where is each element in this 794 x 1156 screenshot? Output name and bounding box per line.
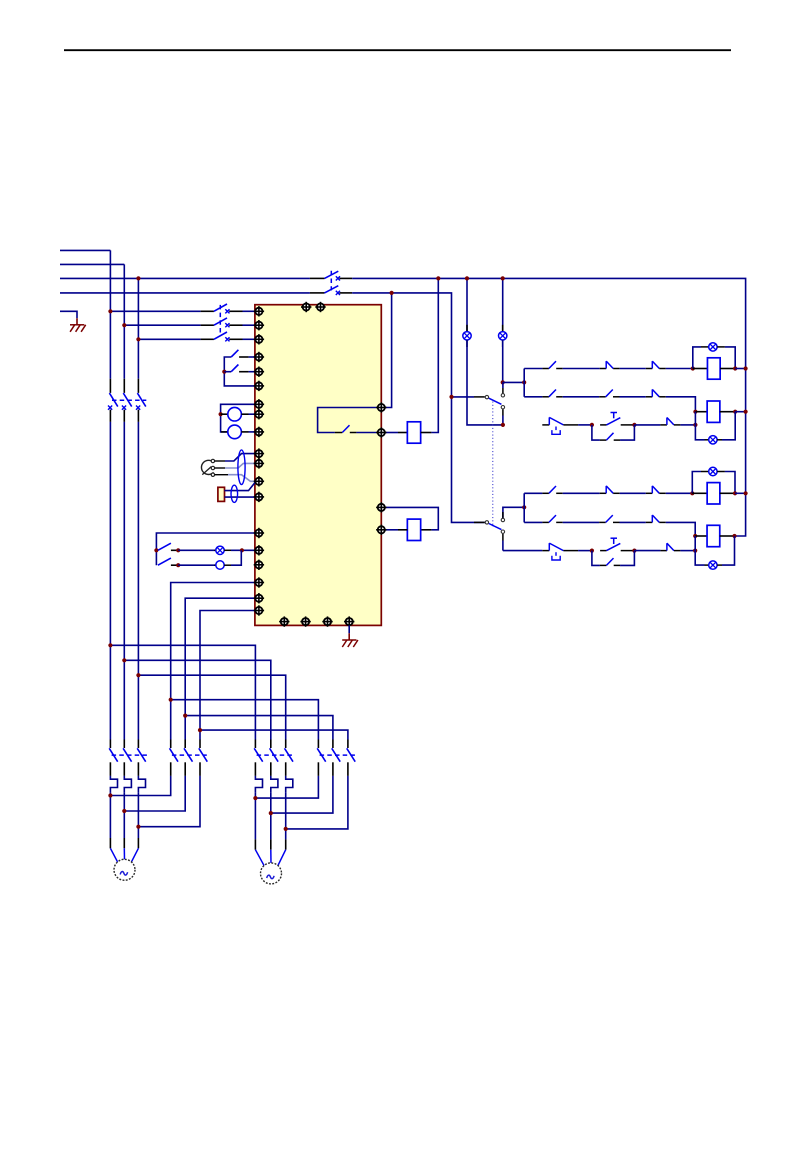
contactor KM1 link <box>112 754 148 756</box>
wire branch phase 2 to KM3 <box>124 660 270 739</box>
wire branch KM2 3 to KM4 <box>200 730 348 739</box>
wire RP pin1 to row10 <box>225 454 255 461</box>
switch QS1 pole 1 <box>108 379 118 422</box>
overload FR1 heater 1 <box>110 776 117 792</box>
selector SA2 blade <box>489 398 502 404</box>
wire KM4 out 2 <box>271 776 333 813</box>
motor M2 lead black 2 <box>270 839 272 849</box>
relay KA2 lead in <box>385 529 398 531</box>
contact rung5-3 <box>646 515 666 522</box>
lamp HL1c lead out <box>717 346 725 348</box>
relay KA2 lead out black <box>421 529 432 531</box>
switch QS1 pole 3 <box>136 379 146 422</box>
wire rung6 mid <box>578 550 592 552</box>
junction combo2/rung3 <box>693 423 697 427</box>
wire RT upper to row12 <box>225 482 256 491</box>
potentiometer RP pin1 <box>211 459 214 462</box>
relay KA2 lead in black <box>398 529 407 531</box>
pushbutton SB1 blade <box>231 350 238 357</box>
lamp HL1 lead top <box>466 325 468 332</box>
lamp HL2c lead in <box>705 439 709 441</box>
combo2 left leg <box>695 412 704 440</box>
lamp HL1c branch right <box>725 347 735 369</box>
junction KM2 out 3 <box>136 825 140 829</box>
contactor KM1 pole 3 <box>137 740 146 776</box>
junction rail/combo1 <box>744 366 748 370</box>
PLC terminal left 14 <box>254 528 264 538</box>
wire rows7-9 bracket <box>221 404 255 432</box>
lamp HL1c <box>709 343 717 351</box>
PLC terminal left 13 <box>254 492 264 502</box>
foot switch SF2 <box>542 543 578 560</box>
resistor RT body <box>218 487 225 501</box>
selector SA3 blade <box>489 524 502 530</box>
motor M1 lead diag 1 <box>110 848 117 862</box>
wire KM2 out 3 <box>138 776 200 827</box>
wire row17 to KM2 pole1 <box>171 583 255 740</box>
contact rung4-1 <box>542 486 562 493</box>
wire rung1 lead <box>524 368 542 370</box>
relay KA5 lead out <box>720 492 735 494</box>
motor M1 lead diag 2 <box>123 848 125 859</box>
wire throw B up black <box>502 512 504 518</box>
combo2 right leg <box>722 412 735 440</box>
contactor KM4 pole 1 <box>317 740 326 776</box>
wire rows4-6 bracket <box>224 357 255 386</box>
wire FR1 to motor lead 1 <box>109 792 111 838</box>
PLC terminal left 8 <box>254 409 264 419</box>
contactor KM2 link <box>172 754 207 756</box>
junction rung3 par left <box>590 423 594 427</box>
seal contact rung6 <box>600 558 620 565</box>
relay KA3 lead out <box>720 368 735 370</box>
pushbutton SB1 lead <box>239 356 249 358</box>
relay KA3 lead in <box>693 368 708 370</box>
junction branch 2 <box>122 658 126 662</box>
switch QF lead-out L4 <box>339 292 352 294</box>
relay KA1 lead in black <box>398 432 407 434</box>
potentiometer RP wiper <box>202 467 211 475</box>
junction rail/combo2 <box>744 410 748 414</box>
motor M1 lead black 1 <box>109 838 111 848</box>
junction KM4 out 2 <box>269 811 273 815</box>
lamp HL1c lead in <box>701 346 709 348</box>
sensor SQ1 <box>228 407 242 421</box>
relay KA6 <box>707 525 720 546</box>
PLC internal contact 1 <box>318 408 382 433</box>
sensor SQ1 lead left <box>221 413 228 415</box>
wire RP pin2 to row11 <box>225 463 255 468</box>
seal branch rung3 <box>592 425 600 440</box>
junction combo2 left <box>693 410 697 414</box>
wire RP pin3 black <box>215 474 228 476</box>
switch SA1b lead <box>171 564 178 566</box>
junction lamp branch <box>154 548 158 552</box>
junction combo1 right <box>733 366 737 370</box>
overload FR2 heater 1 <box>255 776 262 792</box>
selector SA3 throw down <box>501 530 504 533</box>
wire FR2 to motor lead 3 <box>285 792 287 839</box>
wire RP pin1 black <box>215 460 225 462</box>
wire HL0 to row15 <box>231 549 255 551</box>
overload FR1 heater 2 <box>124 776 131 792</box>
overload FR2 heater 3 <box>286 776 293 792</box>
wire rung6 lead <box>503 550 542 552</box>
pushbutton SB3 <box>600 413 634 425</box>
wire phase C drop <box>137 278 139 378</box>
switch SA1a blade <box>158 543 171 550</box>
junction L3/lamp2 <box>501 276 505 280</box>
wire rung5 mid2 <box>620 521 646 523</box>
cable shield oval 2 <box>231 485 238 502</box>
wire rung4 out <box>666 492 693 494</box>
motor M2 lead black 3 <box>285 839 287 849</box>
wire L4 to selector feed <box>352 293 485 523</box>
wire L3 phase to switch <box>60 277 310 279</box>
wire rung1 mid1 <box>563 368 600 370</box>
contactor KM4 link <box>320 754 356 756</box>
contactor KM4 pole 3 <box>347 740 356 776</box>
junction phase row 3 <box>136 337 140 341</box>
wire bracket A <box>523 369 525 397</box>
switch S2 link <box>219 305 221 334</box>
contact rung5-1 <box>542 515 562 522</box>
wire lamp drop 1 <box>466 278 468 331</box>
junction row5 bracket <box>222 370 226 374</box>
contact rung6-3 <box>660 543 680 550</box>
switch QF link <box>330 271 332 291</box>
wire lamp1 to rung3 <box>467 340 503 425</box>
lamp HL0 <box>216 546 224 554</box>
wire L3 to right rail <box>352 278 745 536</box>
wire S2 to PLC row 2 <box>243 324 255 326</box>
wire throw up <box>502 382 504 393</box>
PLC terminal left 18 <box>254 593 264 603</box>
junction branch KM2 1 <box>169 698 173 702</box>
lamp HL0 lead in <box>214 549 216 551</box>
indicator HA lead out <box>224 564 231 566</box>
lamp HL3c lead out <box>717 471 725 473</box>
relay KA5 <box>707 483 720 504</box>
junction SA1a out <box>176 548 180 552</box>
motor M2 lead diag 1 <box>255 850 264 866</box>
junction combo1 left <box>691 366 695 370</box>
junction KM2 out 1 <box>108 793 112 797</box>
relay KA3 <box>707 358 720 379</box>
wire selector A feed <box>452 396 475 398</box>
indicator HA lead in <box>214 564 216 566</box>
PLC terminal bottom 4 <box>344 616 354 626</box>
motor M2 <box>261 863 282 884</box>
PLC terminal right 1 <box>376 402 386 412</box>
wire branch to bracket A <box>503 381 525 383</box>
junction L3/lamp1 <box>465 276 469 280</box>
pushbutton SB2 stub <box>224 371 231 373</box>
contact rung1-1 <box>542 361 562 368</box>
wire N line to switch <box>60 292 310 294</box>
lamp HL3c <box>709 467 717 475</box>
selector SA3 common <box>485 521 488 524</box>
lamp HL2 <box>499 332 507 340</box>
PLC terminal left 7 <box>254 399 264 409</box>
wire rung2 out <box>666 397 696 412</box>
wire rung2 mid1 <box>563 396 600 398</box>
wire branch KM2 1 to KM4 <box>171 700 319 740</box>
sensor SQ2 lead right <box>241 431 248 433</box>
seal branch rung6 <box>592 551 600 566</box>
pushbutton SB4 <box>600 538 634 550</box>
contact rung1-3 <box>646 361 666 368</box>
switch QF lead-out L3 <box>339 277 352 279</box>
junction phase row 2 <box>122 323 126 327</box>
switch SA1a lead <box>171 549 178 551</box>
wire bracket B <box>523 493 525 522</box>
wire SB1 to PLC <box>249 356 255 358</box>
seal branch rung3 right <box>620 425 634 440</box>
contact rung4-3 <box>646 486 666 493</box>
junction combo3 left <box>690 491 694 495</box>
seal contact rung3 <box>600 433 620 440</box>
PLC terminal left 2 <box>254 320 264 330</box>
lamp HL2c lead out <box>717 439 722 441</box>
PLC terminal left 19 <box>254 605 264 615</box>
lamp HL3c lead in <box>701 471 709 473</box>
PLC terminal left 6 <box>254 381 264 391</box>
wire rung2 mid2 <box>620 396 646 398</box>
junction bracket A <box>522 380 526 384</box>
lamp HL4c lead in <box>705 564 709 566</box>
wire rung3 mid <box>578 424 592 426</box>
wire FR1 to motor lead 2 <box>123 792 125 838</box>
junction phase row 1 <box>108 309 112 313</box>
pushbutton SB2 lead <box>239 371 249 373</box>
PLC terminal left 10 <box>254 448 264 458</box>
switch QF lead-in L4 <box>310 292 325 294</box>
motor M2 lead black 1 <box>254 839 256 849</box>
junction bracket B <box>522 505 526 509</box>
junction rung6 par right <box>632 549 636 553</box>
wire lamp2 drop <box>502 340 504 382</box>
top rule <box>64 49 731 51</box>
switch S2 pole 2 <box>201 318 243 327</box>
switch SA1b blade <box>158 558 171 565</box>
seal branch rung6 right <box>620 551 634 566</box>
PLC terminal right 2 <box>376 427 386 437</box>
junction branch KM2 2 <box>183 714 187 718</box>
lamp HL2 lead top <box>502 325 504 332</box>
motor M2 lead diag 2 <box>270 850 272 863</box>
wire rung4 mid1 <box>563 492 600 494</box>
relay KA6 lead in <box>695 535 707 537</box>
contact rung2-3 <box>646 389 666 396</box>
foot switch SF1 <box>542 417 578 434</box>
potentiometer RP pin3 <box>211 473 214 476</box>
PLC terminal left 3 <box>254 334 264 344</box>
PLC terminal bottom 1 <box>279 616 289 626</box>
wire rung5 mid1 <box>563 521 600 523</box>
wire S2 to PLC row 1 <box>243 310 255 312</box>
potentiometer RP pin2 <box>211 466 214 469</box>
wire SQ2 to PLC <box>249 431 255 433</box>
indicator HA <box>216 561 224 569</box>
junction branch 3 <box>136 673 140 677</box>
wire HA join <box>231 550 241 565</box>
motor M1 <box>114 859 135 880</box>
wire rung4 mid2 <box>620 492 646 494</box>
lamp HL2c <box>709 436 717 444</box>
PLC main unit <box>255 305 381 626</box>
PLC terminal bottom 3 <box>322 616 332 626</box>
junction KM4 out 3 <box>284 827 288 831</box>
motor M1 lead black 3 <box>137 838 139 848</box>
switch S2 pole 1 <box>201 304 243 313</box>
PLC ground lead <box>348 625 350 640</box>
PLC terminal top 2 <box>315 302 325 312</box>
wire branch KM2 2 to KM4 <box>185 716 333 740</box>
junction KM4 out 1 <box>253 796 257 800</box>
switch QF contact mark L3 <box>336 276 340 280</box>
switch QS1 pole 2 <box>122 379 132 422</box>
wire QS1 to KM1 pole 1 <box>109 422 111 740</box>
sensor SQ2 lead left <box>221 431 228 433</box>
wire phase tap row 3 <box>138 338 200 340</box>
wire rung3 out2 <box>680 424 695 426</box>
lamp HL4c lead out <box>717 564 722 566</box>
PLC terminal left 5 <box>254 367 264 377</box>
contactor KM3 link <box>257 754 293 756</box>
junction KM2 out 2 <box>122 809 126 813</box>
wire combo1 to rail <box>735 368 745 370</box>
contact rung2-1 <box>542 390 562 397</box>
switch QS1 link <box>112 399 146 401</box>
wire rung4 lead <box>524 492 542 494</box>
overload FR2 heater 2 <box>271 776 278 792</box>
contact rung1-2 <box>600 361 620 368</box>
PLC terminal left 15 <box>254 545 264 555</box>
selector SA2 throw down <box>501 406 504 409</box>
wire S2 to PLC row 3 <box>243 338 255 340</box>
wire branch phase 3 to KM3 <box>138 675 285 739</box>
junction SA1b out <box>176 563 180 567</box>
PLC terminal left 4 <box>254 352 264 362</box>
wire rung6 out1 <box>634 550 660 552</box>
wire row14 feed <box>156 533 255 565</box>
wire RP pin3 to row12 <box>228 475 255 482</box>
wire KA1 to L3 <box>431 278 438 432</box>
junction combo3 right <box>733 491 737 495</box>
junction combo4 left <box>693 534 697 538</box>
wire QS1 to KM1 pole 2 <box>123 422 125 740</box>
lamp HL2 lead bottom <box>502 340 504 347</box>
wire FR1 to motor lead 3 <box>137 792 139 838</box>
junction combo4/rung6 <box>693 549 697 553</box>
contactor KM3 pole 2 <box>270 740 279 776</box>
sensor SQ1 lead right <box>241 413 248 415</box>
selector SA3 throw up <box>501 518 504 521</box>
wire combo3 to rail <box>735 492 746 494</box>
PLC terminal left 1 <box>254 306 264 316</box>
wire PE stub <box>60 311 77 318</box>
wire selector A feed black <box>474 396 485 398</box>
wire phase tap row 1 <box>110 310 200 312</box>
contact rung3-3 <box>660 418 680 425</box>
wire FR2 to motor lead 1 <box>254 792 256 839</box>
wire output1 up <box>381 293 391 408</box>
selector SA2 throw up <box>501 394 504 397</box>
motor M1 lead black 2 <box>123 838 125 848</box>
PLC terminal left 17 <box>254 577 264 587</box>
wire KM2 out 1 <box>110 776 170 796</box>
pushbutton SB2 blade <box>231 365 238 372</box>
contactor KM3 pole 3 <box>285 740 294 776</box>
wire branch phase 1 to KM3 <box>110 645 255 739</box>
junction L4/output1 <box>390 291 394 295</box>
wire selector B feed black <box>474 521 485 523</box>
cable shield oval <box>238 450 245 485</box>
wire SQ1 to PLC <box>249 413 255 415</box>
wire FR2 to motor lead 2 <box>270 792 272 839</box>
lamp HL1 lead bottom <box>466 340 468 347</box>
wire rung1 mid2 <box>620 368 646 370</box>
junction rung3 par right <box>632 423 636 427</box>
selector SA2 common <box>485 395 488 398</box>
junction L3/phase C <box>136 276 140 280</box>
relay KA4 <box>707 401 720 422</box>
junction HL0 out <box>240 548 244 552</box>
junction L3/KA1 <box>436 276 440 280</box>
wire throw B up <box>503 507 524 518</box>
potentiometer RP arc <box>201 460 213 474</box>
sensor SQ2 <box>228 425 242 439</box>
wire row19 to KM2 pole3 <box>200 611 255 740</box>
wire rung5 out <box>666 522 695 536</box>
PLC terminal left 16 <box>254 560 264 570</box>
selector link <box>492 402 494 528</box>
junction feed/selector A <box>449 395 453 399</box>
relay KA4 lead out <box>720 411 735 413</box>
wire L1 phase <box>60 249 110 251</box>
junction branch KM2 3 <box>198 728 202 732</box>
switch QF lead-in L3 <box>310 277 325 279</box>
wire phase tap row 2 <box>124 324 200 326</box>
wire RT lower to row13 <box>225 496 255 498</box>
contactor KM2 pole 2 <box>184 740 193 776</box>
wire throw B down <box>502 534 504 551</box>
wire KM2 out 2 <box>124 776 185 811</box>
ground PE <box>70 325 86 332</box>
relay KA1 lead out black <box>421 432 432 434</box>
wire KM4 out 1 <box>255 776 318 798</box>
overload FR1 heater 3 <box>138 776 145 792</box>
wire rung1 out <box>666 368 693 370</box>
combo4 left leg <box>695 536 704 565</box>
contact rung2-2 <box>599 390 619 397</box>
contactor KM4 pole 2 <box>332 740 341 776</box>
wire throw down <box>502 409 504 425</box>
wire combo2 to rail <box>735 411 745 413</box>
lamp HL1 <box>463 332 471 340</box>
PLC terminal left 9 <box>254 427 264 437</box>
motor M2 lead diag 3 <box>278 850 286 866</box>
wire to indicator HA <box>178 564 216 566</box>
wire rung2 lead <box>524 396 542 398</box>
junction rung6 par left <box>590 549 594 553</box>
switch S2 pole 3 <box>201 332 243 341</box>
contact rung4-2 <box>600 486 620 493</box>
contactor KM2 pole 1 <box>170 740 179 776</box>
wire RP pin2 black <box>215 467 225 469</box>
combo4 right leg <box>722 536 735 565</box>
